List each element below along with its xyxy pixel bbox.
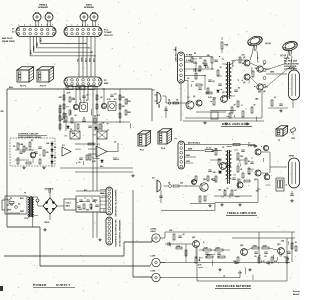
svg-text:6: 6 [47,24,48,26]
svg-text:NOTE:: NOTE: [284,58,291,60]
svg-text:2: 2 [71,24,72,26]
svg-text:GRN: GRN [34,46,36,51]
svg-text:BLK: BLK [82,13,87,15]
svg-text:D4: D4 [54,156,56,159]
svg-text:TREBLE: TREBLE [39,5,48,7]
svg-text:100K: 100K [263,245,268,247]
svg-text:C7: C7 [233,175,235,177]
svg-text:IC1: IC1 [62,145,65,147]
svg-text:C4: C4 [13,145,15,148]
svg-text:47: 47 [234,104,236,107]
svg-text:50: 50 [238,88,240,90]
svg-text:6: 6 [93,24,94,26]
svg-text:(REAR VIEW): (REAR VIEW) [2,40,15,43]
svg-text:Model 1: Model 1 [293,294,300,296]
svg-text:Q5,Q6: Q5,Q6 [265,43,272,45]
svg-text:4: 4 [35,23,36,26]
svg-text:5: 5 [41,24,42,26]
svg-text:CR5-8: CR5-8 [44,222,49,224]
svg-text:BLK: BLK [35,13,40,15]
svg-text:3: 3 [30,24,31,26]
svg-text:Q6: Q6 [243,82,245,84]
svg-text:1: 1 [19,24,20,26]
svg-text:BRN: BRN [188,149,193,151]
svg-text:AC SW: AC SW [7,204,14,207]
svg-text:K1: K1 [86,100,88,102]
svg-text:ORN: ORN [120,227,122,232]
svg-text:.01: .01 [223,276,226,278]
svg-text:Q15: Q15 [254,146,257,148]
svg-text:L7: L7 [248,143,250,145]
svg-text:C12: C12 [199,58,202,60]
svg-text:D3: D3 [54,147,56,149]
svg-text:TREBLE AMPLIFIER: TREBLE AMPLIFIER [227,211,256,215]
svg-text:Q8: Q8 [263,91,265,93]
svg-text:CROSSOVER NETWORK: CROSSOVER NETWORK [216,284,251,288]
svg-text:C7: C7 [94,135,96,137]
svg-text:COM: COM [151,271,156,273]
svg-text:BRN: BRN [120,219,122,224]
svg-text:7: 7 [98,24,99,26]
svg-text:F1: F1 [67,88,69,90]
svg-text:47: 47 [248,160,250,163]
svg-text:Q1: Q1 [193,96,195,98]
svg-text:REG: REG [66,206,71,208]
svg-text:.1: .1 [251,171,253,173]
svg-text:Q3: Q3 [222,92,224,94]
svg-text:47: 47 [254,104,256,107]
svg-text:R12: R12 [213,97,216,99]
svg-text:R1: R1 [194,53,196,55]
svg-text:10: 10 [274,97,276,99]
svg-text:TO AMP: TO AMP [104,31,112,34]
svg-text:222K: 222K [204,247,209,249]
svg-text:LONG BLU WIRE: LONG BLU WIRE [176,46,178,62]
svg-text:ORN: ORN [116,219,118,224]
svg-text:GRN: GRN [270,72,275,74]
svg-text:C7: C7 [280,256,282,258]
svg-text:1000: 1000 [78,209,82,211]
svg-text:GRN: GRN [120,234,122,239]
svg-text:P5, P3: P5, P3 [20,86,27,88]
svg-text:330: 330 [240,156,243,158]
svg-text:3: 3 [77,24,78,26]
svg-text:BASS: BASS [86,4,92,7]
svg-text:.1: .1 [245,109,247,111]
svg-text:330: 330 [46,152,49,154]
svg-text:RED: RED [92,13,97,15]
svg-text:BASS AMPLIFIER: BASS AMPLIFIER [222,122,250,126]
svg-text:Q22: Q22 [240,245,243,247]
svg-text:S2: S2 [18,204,20,206]
svg-text:T1: T1 [222,59,224,61]
svg-text:T2: T2 [278,140,280,142]
svg-text:C7: C7 [107,130,109,132]
svg-text:222K: 222K [216,247,221,249]
svg-text:.05: .05 [264,256,267,258]
svg-text:BLK: BLK [93,57,95,62]
svg-text:470: 470 [97,114,100,117]
svg-text:LOW: LOW [151,256,156,258]
svg-text:RED: RED [37,42,39,47]
svg-text:10: 10 [117,159,119,161]
svg-text:.02: .02 [74,115,77,117]
svg-text:F2: F2 [10,198,12,200]
svg-text:J2: J2 [70,129,72,131]
svg-text:R9: R9 [31,140,33,142]
svg-text:1: 1 [66,24,67,26]
svg-text:BRN: BRN [116,238,118,243]
svg-text:L7 2.2: L7 2.2 [206,148,211,150]
svg-text:R12: R12 [218,172,221,174]
svg-text:22: 22 [227,188,229,190]
svg-text:RED: RED [47,13,52,15]
svg-text:100: 100 [256,190,259,192]
svg-text:GRN: GRN [116,227,118,232]
svg-text:P4, P2: P4, P2 [40,85,47,88]
svg-text:C3: C3 [202,63,204,65]
svg-text:IC1: IC1 [97,144,100,146]
svg-text:5: 5 [87,24,88,26]
svg-text:Q7: Q7 [263,64,265,66]
svg-text:GRN: GRN [116,193,118,198]
svg-text:SUPPLY: SUPPLY [56,283,71,287]
svg-text:4: 4 [82,23,83,26]
svg-text:Q5: Q5 [243,57,245,59]
svg-text:Q11: Q11 [191,181,194,183]
svg-text:GRN: GRN [81,57,83,62]
svg-text:330: 330 [128,101,131,103]
svg-text:PLUG P2: PLUG P2 [104,35,113,37]
svg-text:AMP PLUG: AMP PLUG [2,37,13,40]
svg-text:TWTR: TWTR [289,156,295,158]
svg-text:.02: .02 [114,94,117,96]
svg-text:68: 68 [249,174,251,176]
svg-text:LEVEL: LEVEL [151,229,158,231]
svg-text:.02: .02 [182,234,185,236]
svg-text:BLK: BLK [40,37,42,42]
svg-text:RED: RED [89,57,91,62]
svg-text:Q2: Q2 [100,97,103,99]
svg-text:.05: .05 [212,81,215,83]
svg-text:Q23: Q23 [277,244,280,246]
svg-text:C7: C7 [221,197,223,199]
svg-text:Q7,Q8: Q7,Q8 [280,55,287,57]
svg-text:2: 2 [24,24,25,26]
svg-text:K2: K2 [114,99,116,101]
svg-text:.02: .02 [234,190,237,192]
svg-text:CONTROL CIRCUIT: CONTROL CIRCUIT [18,134,39,136]
svg-text:SW1: SW1 [78,88,82,90]
svg-text:68: 68 [211,179,213,181]
svg-text:CR9: CR9 [291,138,295,140]
svg-text:.02: .02 [114,142,117,144]
svg-text:100K: 100K [253,245,258,247]
svg-text:CR2: CR2 [100,193,104,195]
svg-text:T2: T2 [222,147,224,149]
svg-text:330: 330 [265,174,268,176]
svg-text:Q16: Q16 [254,179,257,181]
svg-text:F LINE: F LINE [186,55,193,57]
svg-text:500: 500 [86,210,89,212]
svg-text:BLK: BLK [9,87,14,89]
svg-text:68: 68 [287,259,289,261]
svg-text:100K: 100K [176,246,181,248]
svg-text:560: 560 [218,189,221,191]
svg-text:Schema: Schema [293,291,300,293]
svg-text:SPEAKER: SPEAKER [84,6,95,9]
svg-text:BLU: BLU [85,57,87,62]
svg-text:Q12: Q12 [203,179,206,181]
svg-text:330: 330 [213,172,216,174]
svg-text:8: 8 [242,105,243,107]
svg-text:Q21: Q21 [192,237,195,239]
svg-text:68: 68 [242,63,244,65]
svg-text:BLK WH-BLU: BLK WH-BLU [188,143,201,145]
svg-text:.02: .02 [86,95,89,97]
svg-text:VOLT: VOLT [66,203,72,205]
svg-text:WHT: WHT [31,49,33,54]
svg-text:220: 220 [180,183,183,185]
svg-text:R12: R12 [84,190,87,192]
svg-text:330: 330 [214,149,217,151]
svg-text:WHT: WHT [7,210,12,212]
svg-text:POWER: POWER [33,283,47,287]
svg-text:SPEAKER: SPEAKER [38,6,49,9]
svg-text:.05: .05 [254,256,257,258]
svg-text:.02: .02 [283,257,286,259]
svg-text:HIGH: HIGH [151,231,157,233]
svg-text:AMP: AMP [104,82,109,85]
svg-text:7: 7 [52,24,53,26]
svg-text:.05: .05 [78,162,81,164]
svg-text:CR2: CR2 [237,181,241,183]
svg-text:560: 560 [258,92,261,94]
